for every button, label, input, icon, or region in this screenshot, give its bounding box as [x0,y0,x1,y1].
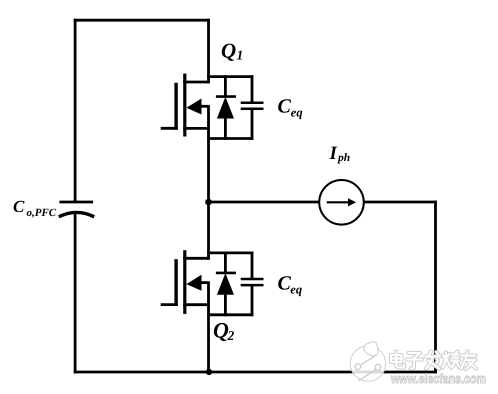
svg-text:ph: ph [337,152,350,164]
svg-text:C: C [13,197,25,216]
svg-text:1: 1 [237,47,244,62]
svg-text:C: C [278,96,292,118]
svg-text:www.elecfans.com: www.elecfans.com [390,371,486,386]
svg-text:Q: Q [221,38,236,62]
svg-text:o,PFC: o,PFC [27,207,57,219]
svg-text:2: 2 [227,328,235,343]
svg-text:eq: eq [291,106,303,120]
svg-text:I: I [329,143,338,164]
svg-text:eq: eq [290,283,302,297]
